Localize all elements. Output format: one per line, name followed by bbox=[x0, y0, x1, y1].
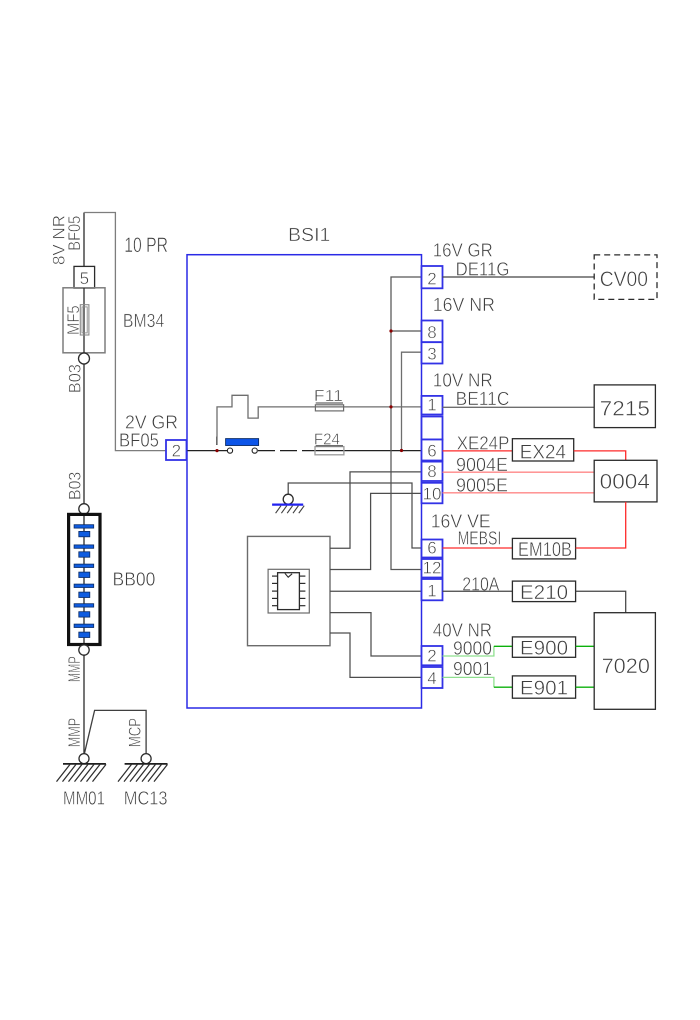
box CV00 (dashed) bbox=[594, 255, 657, 300]
svg-text:MMP: MMP bbox=[65, 656, 84, 682]
svg-text:7215: 7215 bbox=[600, 397, 650, 420]
svg-text:2: 2 bbox=[172, 442, 181, 461]
pin box 8b bbox=[422, 462, 443, 481]
wire MCP branch bbox=[85, 710, 147, 753]
wire pin2 to CV00 bbox=[443, 276, 595, 278]
svg-text:210A: 210A bbox=[462, 575, 499, 596]
switch contact circles bbox=[227, 448, 232, 453]
wire pin 3 branch bbox=[402, 352, 422, 450]
wire pin1b to E210 bbox=[443, 590, 513, 592]
pin box 6 bbox=[422, 440, 443, 461]
wire 8V NR (top vertical feed) bbox=[83, 213, 85, 267]
battery BB00 top terminal circle bbox=[79, 504, 89, 514]
wire pin2b to E900 (green) bbox=[443, 646, 494, 656]
chip inner frame bbox=[268, 569, 309, 613]
chip pins right bbox=[299, 576, 305, 606]
svg-text:1: 1 bbox=[427, 581, 436, 600]
pin box 1b bbox=[422, 579, 443, 600]
wire EX24 to 0004 (red) bbox=[574, 451, 626, 460]
box 7020 bbox=[594, 613, 655, 710]
wire pin 6 MEBSI to internal ground bbox=[288, 483, 421, 548]
chip wire to pin 1b bbox=[330, 590, 422, 592]
switch contact tick bbox=[216, 437, 218, 445]
svg-text:0004: 0004 bbox=[600, 471, 651, 494]
svg-text:1: 1 bbox=[427, 396, 436, 415]
battery BB00 case bbox=[69, 514, 100, 644]
battery BB00 bottom terminal circle bbox=[79, 645, 89, 655]
ground MM01 bbox=[57, 754, 107, 782]
wire EM10B to 0004 (red) bbox=[576, 502, 626, 548]
svg-text:10: 10 bbox=[423, 484, 442, 503]
wire pin1 to 7215 bbox=[443, 406, 595, 408]
box 7215 bbox=[594, 385, 655, 428]
internal ground blue bar bbox=[272, 504, 303, 506]
fuse F11 bbox=[315, 405, 343, 411]
svg-text:E210: E210 bbox=[520, 582, 568, 604]
pin box 3 bbox=[422, 342, 443, 363]
svg-text:MM01: MM01 bbox=[63, 789, 105, 810]
pin box 10 bbox=[422, 483, 443, 504]
svg-text:9001: 9001 bbox=[453, 659, 492, 680]
junction dot F11 net bbox=[389, 405, 392, 408]
box 0004 bbox=[594, 460, 657, 502]
svg-text:B03: B03 bbox=[66, 364, 85, 393]
connector pin 5 bbox=[74, 266, 95, 288]
svg-text:E900: E900 bbox=[520, 638, 568, 660]
ECU box BSI1 bbox=[187, 255, 422, 708]
wire 10 PR bbox=[84, 213, 166, 451]
pin box 8 bbox=[422, 321, 443, 343]
fuse F24 bbox=[315, 447, 344, 455]
junction dot F24 net bbox=[400, 449, 403, 452]
wire pin6 to EX24 (red) bbox=[443, 450, 513, 452]
svg-text:MF5: MF5 bbox=[64, 305, 83, 335]
svg-text:MEBSI: MEBSI bbox=[458, 529, 502, 550]
pin box 4 bbox=[422, 667, 443, 688]
svg-text:10 PR: 10 PR bbox=[124, 234, 168, 257]
chip notch bbox=[285, 573, 292, 577]
wire through BM34 bbox=[83, 288, 85, 353]
svg-text:5: 5 bbox=[80, 269, 89, 288]
battery BB00 internal wire bbox=[83, 514, 85, 645]
switch blue bar bbox=[226, 439, 259, 446]
svg-text:6: 6 bbox=[427, 539, 436, 558]
chip body bbox=[278, 573, 300, 610]
svg-text:CV00: CV00 bbox=[600, 268, 648, 291]
wire pin10 to 0004 (light red) bbox=[443, 492, 595, 494]
svg-text:MC13: MC13 bbox=[124, 789, 168, 810]
svg-text:EX24: EX24 bbox=[520, 441, 566, 463]
internal ground hatches bbox=[276, 506, 305, 514]
svg-text:4: 4 bbox=[427, 669, 436, 688]
junction dot pin8 net bbox=[389, 329, 392, 332]
svg-text:12: 12 bbox=[423, 559, 442, 578]
fusebox BM34 bbox=[63, 288, 105, 353]
svg-text:3: 3 bbox=[427, 345, 436, 364]
svg-text:8: 8 bbox=[427, 462, 436, 481]
svg-text:B03: B03 bbox=[66, 472, 85, 500]
box E210 bbox=[512, 581, 575, 602]
svg-text:BF05: BF05 bbox=[65, 216, 84, 251]
wire E901 to 7020 (green) bbox=[576, 686, 595, 688]
svg-text:MMP: MMP bbox=[65, 718, 84, 747]
box E900 bbox=[512, 637, 575, 657]
svg-text:16V NR: 16V NR bbox=[433, 295, 495, 316]
junction circle below BM34 bbox=[79, 353, 90, 364]
svg-text:BF05: BF05 bbox=[119, 431, 159, 452]
internal ground circle bbox=[283, 494, 293, 504]
chip pins left bbox=[272, 576, 278, 606]
svg-text:6: 6 bbox=[427, 441, 436, 460]
fuse MF5 bbox=[80, 305, 89, 335]
internal step wire to F11 bbox=[217, 395, 422, 445]
box EM10B bbox=[512, 538, 575, 559]
internal net pin2-pin8-pin12 vertical bbox=[391, 277, 422, 570]
junction dot switch bbox=[215, 449, 218, 452]
chip wire to pin 8b bbox=[330, 472, 422, 548]
battery BB00 plates bbox=[74, 525, 94, 638]
box EX24 bbox=[512, 439, 573, 461]
wire pin 8 stub bbox=[391, 330, 422, 332]
svg-text:F11: F11 bbox=[314, 388, 343, 405]
pin box 1 bbox=[422, 396, 443, 415]
wire pin6b to EM10B (red) bbox=[443, 547, 513, 549]
svg-text:2: 2 bbox=[427, 269, 436, 288]
chip wire to pin 4 bbox=[330, 633, 422, 677]
chip wire to pin 10 bbox=[330, 493, 422, 569]
wire E210 to 7020 bbox=[576, 591, 626, 613]
chip module outer box bbox=[248, 536, 331, 645]
wire pin4 to E901 (green) bbox=[443, 677, 494, 687]
svg-text:F24: F24 bbox=[314, 431, 340, 448]
pin box empty bbox=[422, 417, 443, 440]
connector pin 2 BF05 (left) bbox=[166, 440, 187, 460]
wire pin8b to 0004 (light red) bbox=[443, 471, 595, 473]
wire MMP bbox=[83, 655, 85, 753]
pin box 12 bbox=[422, 559, 443, 578]
svg-text:BM34: BM34 bbox=[123, 311, 165, 332]
chip wire to pin 2b bbox=[330, 613, 422, 656]
wire F24 to pin 6 bbox=[315, 450, 422, 452]
pin box 6b MEBSI bbox=[422, 540, 443, 558]
wire E900 to 7020 (green) bbox=[576, 645, 595, 647]
svg-text:MCP: MCP bbox=[126, 718, 145, 747]
svg-text:BB00: BB00 bbox=[113, 570, 156, 591]
box E901 bbox=[512, 676, 575, 698]
svg-text:E901: E901 bbox=[520, 678, 568, 700]
svg-text:7020: 7020 bbox=[602, 655, 650, 678]
svg-text:8: 8 bbox=[427, 323, 436, 342]
svg-text:EM10B: EM10B bbox=[518, 539, 572, 561]
pin box 2b bbox=[422, 646, 443, 665]
svg-text:2: 2 bbox=[427, 646, 436, 665]
svg-text:BSI1: BSI1 bbox=[288, 225, 330, 246]
dashed switch link wire bbox=[258, 450, 315, 452]
ground MC13 bbox=[118, 754, 168, 782]
wire switch net (BF05 to F24) bbox=[187, 450, 228, 452]
pin box 2 (DE11G) bbox=[422, 266, 443, 288]
wire B03 bbox=[83, 364, 85, 504]
